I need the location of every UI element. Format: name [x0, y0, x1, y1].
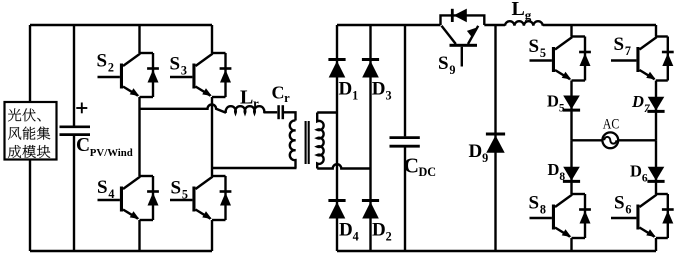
svg-text:D: D: [372, 79, 386, 100]
svg-text:5: 5: [182, 188, 188, 202]
IGBT S2: [98, 53, 159, 97]
wire: left outer vertical (lower): [29, 160, 31, 252]
diode D3: [362, 60, 379, 78]
wire: secondary top to rectifier: [317, 111, 337, 113]
diode D7: [647, 97, 664, 112]
wire: Lg to right bridge: [543, 24, 656, 26]
wire: rectifier bottom rail: [337, 250, 405, 252]
diode D6: [647, 167, 664, 182]
svg-text:D: D: [547, 91, 559, 110]
wire: C_DC branch upper: [404, 25, 406, 136]
wire: rectifier top rail: [337, 24, 405, 26]
svg-text:DC: DC: [419, 165, 437, 179]
svg-text:6: 6: [625, 203, 631, 217]
label S2: [97, 51, 114, 75]
label S5 (left bridge): [171, 178, 188, 202]
svg-text:D: D: [339, 79, 353, 100]
svg-text:4: 4: [353, 230, 359, 244]
wire: leg S2/S4 middle: [138, 97, 140, 176]
label Lg: [512, 0, 532, 23]
wire: left outer vertical (upper): [29, 25, 31, 102]
svg-text:D: D: [631, 92, 644, 111]
diode D5: [563, 96, 580, 111]
svg-text:S: S: [171, 178, 182, 199]
label Cr: [272, 82, 291, 105]
label S4: [97, 177, 114, 201]
switch S9 bypass diode loop: [441, 15, 485, 25]
label S7: [614, 34, 631, 58]
svg-text:L: L: [240, 87, 253, 109]
wire: primary bottom to S3-leg mid-B: [212, 167, 297, 169]
svg-text:3: 3: [181, 64, 187, 78]
svg-text:D: D: [469, 141, 483, 162]
label S5 (right bridge): [529, 36, 546, 60]
label D2: [372, 220, 392, 244]
wire: D9 branch: [494, 25, 496, 251]
wire: top rail to S9: [405, 24, 441, 26]
svg-text:S: S: [529, 193, 540, 214]
wire: leg S3/S5 lower: [211, 220, 213, 251]
wire: leg S7 top drop: [655, 25, 657, 37]
label S6: [614, 193, 631, 217]
wire: C_PV/Wind branch upper: [73, 25, 75, 126]
wire: leg AC-D6-S6: [655, 140, 657, 194]
svg-text:S: S: [170, 54, 181, 75]
wire: bridge mid-A to Lr (hop over S3 leg): [140, 105, 227, 113]
svg-text:5: 5: [540, 46, 546, 60]
capacitor C_PV/Wind plates: [60, 127, 91, 135]
svg-text:8: 8: [559, 171, 565, 183]
svg-text:C: C: [76, 135, 90, 156]
svg-text:3: 3: [385, 89, 391, 103]
transformer core: [306, 121, 309, 164]
IGBT S7: [611, 37, 674, 81]
text: 光伏、风能集成模块 (PV/wind integration module): [8, 108, 50, 158]
label D1: [339, 79, 359, 103]
capacitor C_DC plates: [390, 138, 420, 147]
svg-text:AC: AC: [603, 117, 620, 133]
label AC: [603, 117, 620, 133]
svg-text:8: 8: [540, 203, 546, 217]
wire: leg S5-D5-AC: [570, 81, 572, 141]
label + polarity: [76, 103, 87, 114]
wire: C_DC branch lower: [404, 147, 406, 251]
svg-text:C: C: [404, 154, 420, 178]
wire: left-bridge top rail: [30, 24, 212, 26]
svg-text:S: S: [97, 51, 108, 72]
diode (S9 antiparallel, pointing left): [452, 9, 467, 23]
PV/Wind source module box: [5, 102, 57, 160]
label D8: [548, 160, 566, 183]
label Lr: [240, 87, 259, 111]
svg-text:L: L: [512, 0, 525, 20]
diode D4: [328, 201, 345, 219]
svg-text:5: 5: [559, 102, 565, 114]
diode D8: [563, 167, 580, 182]
IGBT S3: [170, 53, 231, 97]
wire: bottom rail (rectifier to right bridge): [405, 250, 656, 252]
capacitor Cr: [279, 105, 283, 119]
svg-text:r: r: [284, 91, 290, 105]
wire: leg D1/D4: [336, 25, 338, 251]
svg-text:C: C: [272, 82, 285, 102]
svg-text:D: D: [339, 220, 353, 241]
IGBT S8: [530, 194, 591, 238]
wire: leg S6 bottom drop: [655, 238, 657, 251]
IGBT S6: [611, 194, 674, 238]
wire: Cr to transformer primary: [284, 112, 296, 120]
wire: leg S2/S4 lower: [138, 220, 140, 251]
svg-text:g: g: [525, 8, 532, 23]
wire: Lr to Cr: [264, 111, 278, 113]
svg-text:9: 9: [482, 151, 488, 165]
IGBT S5 (left bridge): [170, 176, 231, 220]
wire: S9 to Lg junction: [484, 24, 505, 26]
wire: left-bridge bottom rail: [30, 250, 212, 252]
label D6: [630, 162, 648, 185]
inductor Lg: [505, 21, 543, 26]
svg-text:1: 1: [352, 89, 358, 103]
label S3: [170, 54, 187, 78]
wire: AC node left: [572, 139, 603, 141]
svg-text:9: 9: [449, 63, 455, 77]
svg-text:6: 6: [642, 173, 648, 185]
label S9: [438, 53, 455, 77]
IGBT S9 (horizontal): [442, 26, 479, 67]
svg-text:D: D: [630, 162, 642, 181]
diode D9: [486, 134, 505, 153]
wire: leg S3/S5 middle: [211, 97, 213, 176]
wire: C_PV/Wind branch lower: [73, 135, 75, 251]
transformer primary winding: [290, 120, 296, 168]
wire: leg D3/D2: [369, 25, 371, 251]
wire: leg S7-D7-AC: [655, 81, 657, 141]
svg-text:PV/Wind: PV/Wind: [90, 147, 133, 159]
label D9: [469, 141, 489, 165]
inductor Lr: [226, 106, 265, 113]
transformer secondary winding: [317, 113, 323, 169]
svg-text:S: S: [614, 34, 625, 55]
wire: leg S5 top drop: [570, 25, 572, 37]
svg-text:S: S: [529, 36, 540, 57]
svg-text:S: S: [97, 177, 108, 198]
diode D1: [328, 60, 345, 78]
svg-text:2: 2: [386, 230, 392, 244]
svg-text:7: 7: [625, 44, 631, 58]
diode D2: [362, 201, 379, 219]
svg-text:S: S: [614, 193, 625, 214]
wire: secondary bottom to rectifier (hop over D1 leg): [317, 164, 370, 168]
svg-text:D: D: [548, 160, 560, 179]
label C_PV/Wind: [76, 135, 133, 159]
svg-text:2: 2: [108, 61, 114, 75]
IGBT S4: [98, 176, 159, 220]
svg-text:r: r: [253, 96, 259, 111]
svg-text:S: S: [438, 53, 449, 74]
label D7: [631, 92, 651, 115]
svg-text:4: 4: [108, 187, 114, 201]
label D4: [339, 220, 359, 244]
label D5: [547, 91, 565, 114]
IGBT S5 (right bridge): [530, 37, 591, 81]
wire: leg S3/S5 upper: [211, 25, 213, 53]
AC source: [602, 132, 618, 148]
svg-text:D: D: [372, 220, 386, 241]
wire: leg AC-D8-S8: [570, 140, 572, 194]
wire: leg S2/S4 upper: [138, 25, 140, 53]
label C_DC: [404, 154, 437, 180]
label S8: [529, 193, 546, 217]
wire: leg S8 bottom drop: [570, 238, 572, 251]
label D3: [372, 79, 392, 103]
wire: AC node right: [618, 139, 656, 141]
